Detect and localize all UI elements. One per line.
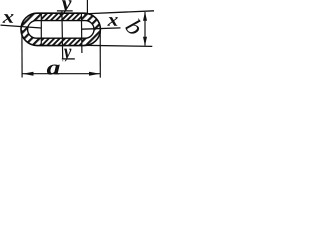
b dimension line <box>144 12 146 46</box>
label y bottom <box>62 49 71 63</box>
right tangent line (extends below tube) <box>80 14 83 53</box>
tube inner contour <box>28 21 94 39</box>
label y top underline <box>57 10 73 12</box>
stray vertical stub top <box>86 0 88 13</box>
a arrow left <box>22 72 33 76</box>
left tangent line <box>40 14 42 45</box>
tube wall hatching: straight walls <box>41 10 82 50</box>
tube wall hatching: left cap <box>18 10 41 50</box>
background <box>0 0 154 86</box>
a extension line left <box>21 30 23 78</box>
b top extension line <box>84 11 154 14</box>
y axis line <box>61 11 64 59</box>
tube wall hatching: right cap <box>82 10 104 50</box>
b arrow up <box>143 12 147 21</box>
label x left <box>2 14 13 23</box>
b bottom extension line <box>84 45 152 46</box>
label x right <box>107 17 117 26</box>
a extension line right <box>99 31 101 78</box>
x axis left segment <box>1 25 42 28</box>
tube outer contour <box>21 13 100 45</box>
label b (rotated) <box>125 18 140 33</box>
b arrow down <box>143 37 147 46</box>
a dimension line <box>22 73 100 75</box>
label y bottom underline <box>62 58 75 60</box>
label y top <box>60 0 72 15</box>
x axis right segment <box>81 28 120 29</box>
label a <box>47 65 60 75</box>
a arrow right <box>89 72 100 76</box>
